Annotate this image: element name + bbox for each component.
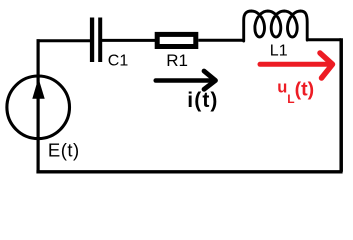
wire: bottom horizontal <box>36 170 342 173</box>
capacitor C1 left plate <box>90 18 94 63</box>
wire: top-left horizontal from node A to C1 <box>38 39 91 41</box>
voltage source E circle <box>7 76 70 139</box>
wire: R1 to L1 <box>198 39 244 42</box>
wire: L1 to top-right corner <box>306 38 341 41</box>
svg-text:C1: C1 <box>108 53 129 70</box>
wire: left vertical through source <box>36 39 39 173</box>
current arrow i(t) head <box>204 71 216 89</box>
voltage arrow uL(t) shaft <box>260 62 330 67</box>
resistor R1 body <box>157 34 196 46</box>
svg-text:L1: L1 <box>270 42 288 59</box>
svg-text:uL(t): uL(t) <box>277 79 314 107</box>
inductor L1 coil <box>244 11 308 41</box>
svg-text:R1: R1 <box>166 51 188 70</box>
svg-text:E(t): E(t) <box>48 139 80 160</box>
svg-text:i(t): i(t) <box>187 89 218 112</box>
wire: right vertical <box>339 38 343 172</box>
current arrow i(t) shaft <box>156 78 212 83</box>
voltage source arrowhead <box>32 78 44 99</box>
capacitor C1 right plate <box>98 18 102 63</box>
wire: C1 to R1 <box>102 39 156 42</box>
voltage arrow uL(t) head <box>320 53 333 78</box>
